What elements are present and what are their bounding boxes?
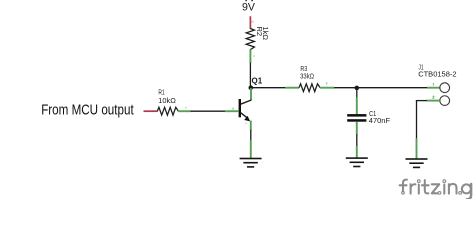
- svg-text:33kΩ: 33kΩ: [300, 71, 314, 80]
- svg-text:1kΩ: 1kΩ: [261, 27, 270, 41]
- svg-text:Q1: Q1: [252, 76, 263, 85]
- svg-text:9V: 9V: [242, 1, 256, 13]
- svg-text:470nF: 470nF: [369, 116, 391, 125]
- svg-text:CTB0158-2: CTB0158-2: [418, 70, 456, 79]
- svg-text:From MCU output: From MCU output: [41, 103, 134, 119]
- svg-text:10kΩ: 10kΩ: [158, 96, 176, 105]
